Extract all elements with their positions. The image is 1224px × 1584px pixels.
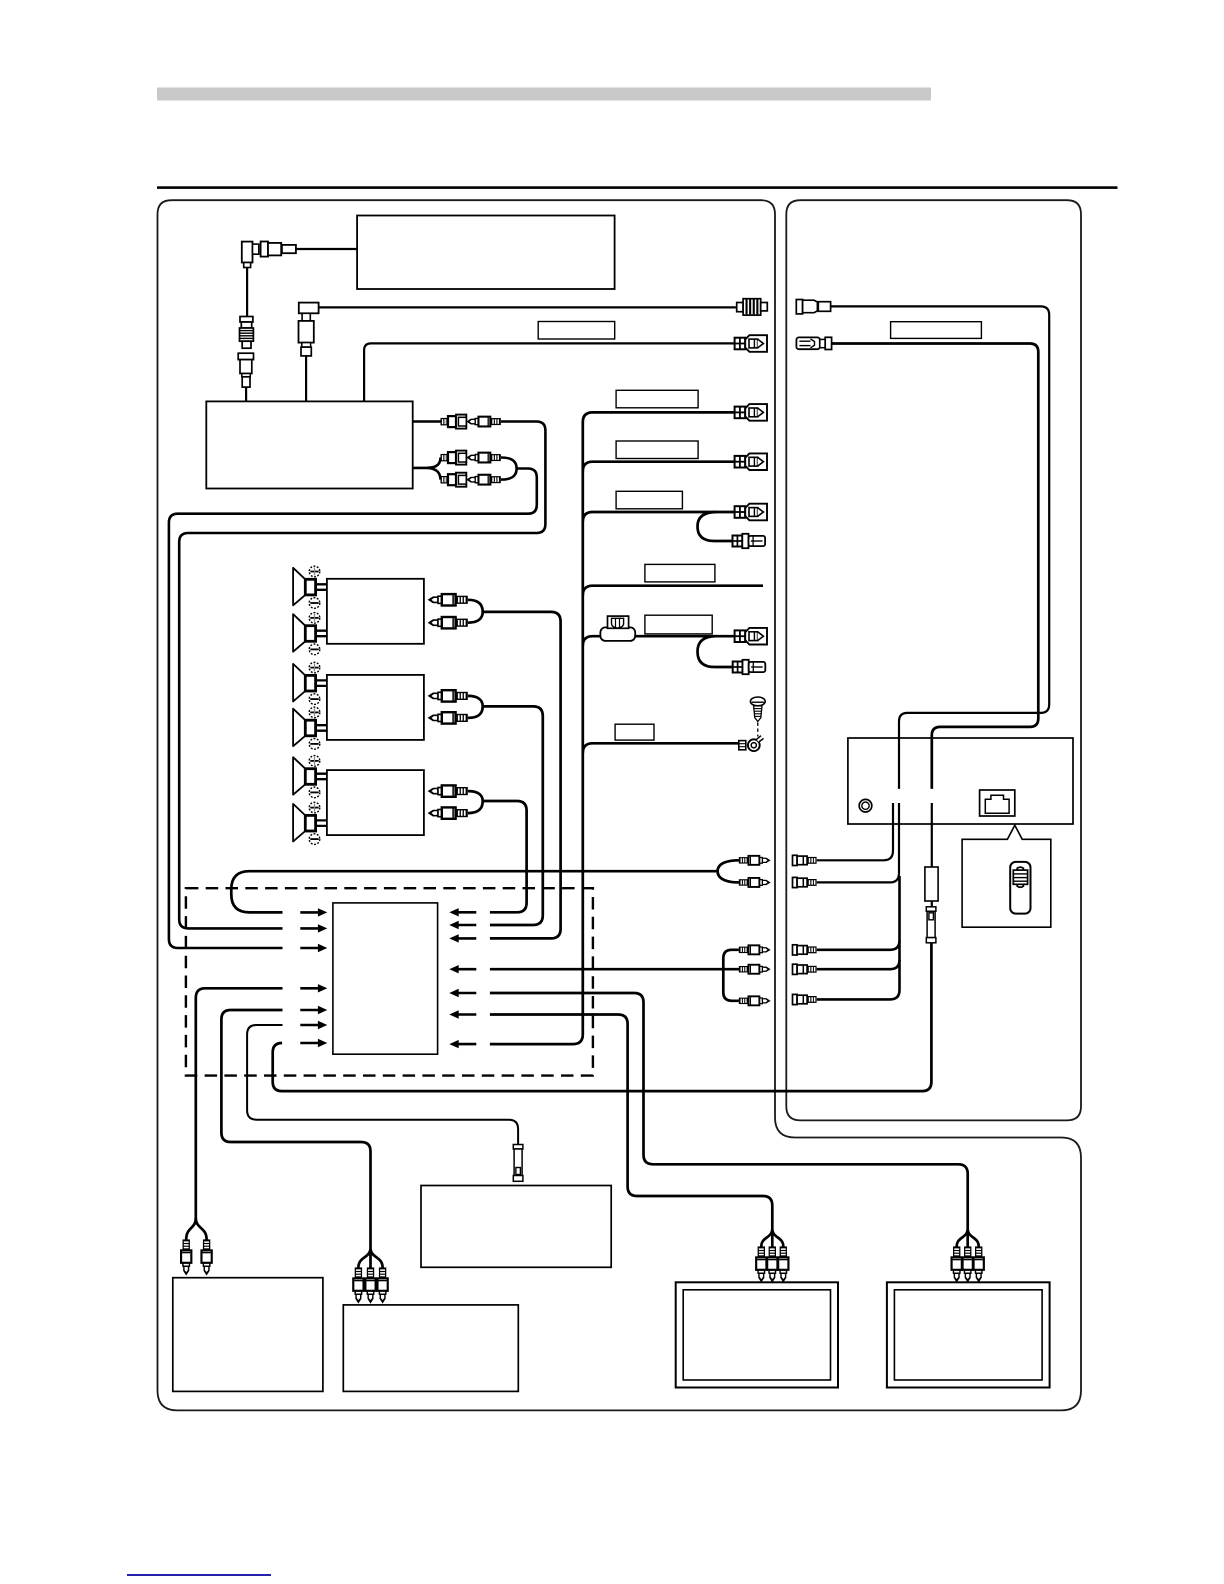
speaker SP2a leads xyxy=(316,680,327,686)
RCA jack pair 1 female xyxy=(441,415,467,429)
wire pair1 to left drop xyxy=(179,422,545,929)
speaker SP3a leads xyxy=(316,774,327,780)
wire fuse rect to connector xyxy=(931,901,933,907)
label box battery lead xyxy=(645,615,712,634)
label box remote turn-on xyxy=(616,390,698,408)
speaker SP1a xyxy=(293,568,316,606)
wire tuner top lead to radio antenna spade xyxy=(364,343,734,401)
label box power antenna xyxy=(616,441,698,459)
pigtail to male spade y667 xyxy=(698,636,732,667)
label box antenna control xyxy=(645,564,715,582)
inline connector below fuse xyxy=(926,907,936,943)
antenna connector at end of P2 wire xyxy=(737,299,768,315)
wire plug P2 down to tuner box xyxy=(305,356,307,402)
AMP2 RCA plugs xyxy=(429,690,468,701)
RCA pair 2 male plug xyxy=(468,453,501,463)
antenna extension connector upper barrel xyxy=(240,317,254,349)
vehicle connector icon xyxy=(980,790,1015,816)
RCA trio down into monitor1 xyxy=(756,1246,766,1281)
speaker SP1b leads xyxy=(316,631,327,637)
vehicle battery spade connector xyxy=(796,337,831,349)
wire trio loop top-bottom xyxy=(723,950,739,1001)
wire plug P1 down to extension xyxy=(246,268,248,317)
branch wire y512 xyxy=(583,512,734,522)
wire vehicle antenna to grommet xyxy=(831,306,1050,789)
wire pair to head unit row1 left xyxy=(231,860,739,912)
bullet socket trio lower xyxy=(793,945,817,955)
RCA trio down into DVD player xyxy=(353,1267,363,1302)
RCA pair 1 male plug xyxy=(468,417,501,427)
DVD player box xyxy=(343,1305,518,1392)
spade connector battery xyxy=(735,628,767,645)
fuse icon xyxy=(1010,862,1030,914)
antenna extension connector lower barrel xyxy=(238,353,253,387)
inline fuse holder on battery lead xyxy=(925,867,938,901)
male spade battery xyxy=(733,660,766,674)
gray header bar xyxy=(157,88,931,101)
CD changer box xyxy=(173,1278,323,1392)
branch wire y585 bare lead xyxy=(583,586,763,596)
AMP1 RCA plugs xyxy=(429,594,468,605)
label box vehicle harness xyxy=(891,322,982,339)
antenna right-angle plug P2 xyxy=(299,303,319,356)
speaker SP1b xyxy=(293,614,316,652)
wire AMP2 to head unit row2 xyxy=(468,696,543,925)
speaker SP3a xyxy=(293,757,316,795)
RCA trio down into monitor2 xyxy=(952,1246,962,1281)
speaker SP1a leads xyxy=(316,584,327,590)
label box JASO antenna xyxy=(538,322,615,340)
wire AMP1 to head unit row3 xyxy=(468,600,561,939)
bullet socket pair upper xyxy=(793,855,817,865)
speaker SP3b leads xyxy=(316,820,327,826)
left L-shaped panel border xyxy=(158,200,1082,1410)
fuse holder FH1 on battery lead xyxy=(600,616,635,641)
wire head unit row7 left long power lead to right panel xyxy=(273,941,932,1091)
RCA plug pair down into CD changer xyxy=(181,1239,191,1274)
wire vehicle battery to fuse xyxy=(832,344,1039,789)
head unit box xyxy=(333,903,438,1054)
amplifier AMP2 xyxy=(327,675,424,740)
spade connector remote turn-on xyxy=(735,404,767,421)
wire head unit row6 left to display mini plug xyxy=(247,1025,518,1145)
speaker SP2b leads xyxy=(316,725,327,731)
harness trunk with branch wire y412 xyxy=(490,412,734,1044)
wire head unit row5 right to monitor2 trio xyxy=(490,993,979,1247)
wire AMP3 to head unit row1 xyxy=(468,791,527,912)
branch wire y461 xyxy=(583,462,734,472)
display mini plug xyxy=(513,1145,523,1182)
front display box xyxy=(421,1186,611,1268)
tuner box xyxy=(206,401,412,488)
top rule xyxy=(157,186,1118,189)
wire pairs 2+3 merge to left drop xyxy=(169,458,537,949)
wire head unit row6 right to monitor1 trio xyxy=(490,1015,783,1247)
label box ground xyxy=(615,724,654,740)
amplifier AMP3 xyxy=(327,770,424,835)
amplifier AMP1 xyxy=(327,579,424,644)
RCA jack pair 2 female xyxy=(441,451,467,465)
RCA jack pair 3 female xyxy=(441,473,467,487)
dashed supplied-harness boundary xyxy=(186,888,593,1075)
wire head unit row5 left to DVD player trio xyxy=(221,1010,382,1268)
right panel border xyxy=(786,200,1081,1120)
blue footer link line xyxy=(127,1574,271,1576)
wire tuner stub Y to pairs 2 and 3 xyxy=(413,458,441,480)
branch wire y743 ground xyxy=(583,743,740,753)
wires bullet trio to harness xyxy=(817,876,900,999)
wires bullet pair to grommet xyxy=(817,803,893,860)
RCA trio plugs to right panel sockets xyxy=(739,945,770,954)
wire plug P2 to antenna connector row xyxy=(319,306,736,308)
spade connector radio antenna lead xyxy=(735,335,767,352)
wire plug P1 to box1 xyxy=(296,248,357,250)
AMP3 RCA plugs xyxy=(429,785,468,796)
callout balloon with fuse xyxy=(962,825,1051,927)
grommet box (vehicle bulkhead) xyxy=(848,738,1073,824)
ring terminal ground xyxy=(739,736,764,751)
pigtail to male spade y541 xyxy=(698,512,732,541)
box1 (dealer note box) xyxy=(357,216,614,290)
speaker SP2a xyxy=(293,664,316,702)
wires through bulkhead below gap xyxy=(899,803,932,873)
wire tuner stub to pair 1 xyxy=(413,420,441,423)
wire trio middle to head unit row4 right xyxy=(490,968,739,971)
screw xyxy=(750,697,765,722)
RCA pair 3 male plug xyxy=(468,475,501,485)
spade connector accessory xyxy=(735,504,767,521)
dashed screw line xyxy=(757,723,759,737)
antenna right-angle plug P1 xyxy=(242,242,296,268)
male spade accessory xyxy=(733,534,766,548)
left arrows into head unit xyxy=(300,908,327,916)
right arrows into head unit xyxy=(449,908,476,916)
spade connector power antenna xyxy=(735,453,767,470)
RCA plugs to right panel sockets (pair) xyxy=(739,856,770,865)
wire extension to tuner box xyxy=(245,387,247,401)
label box accessory xyxy=(616,491,682,509)
monitor 1 xyxy=(676,1282,838,1387)
speaker SP3b xyxy=(293,804,316,842)
wire head unit row4 left to CD changer xyxy=(186,988,282,1239)
speaker SP2b xyxy=(293,709,316,747)
vehicle antenna plug connector xyxy=(796,300,830,314)
monitor 2 xyxy=(887,1282,1050,1387)
branch wire y636 xyxy=(583,636,734,646)
grommet circle xyxy=(859,799,872,812)
